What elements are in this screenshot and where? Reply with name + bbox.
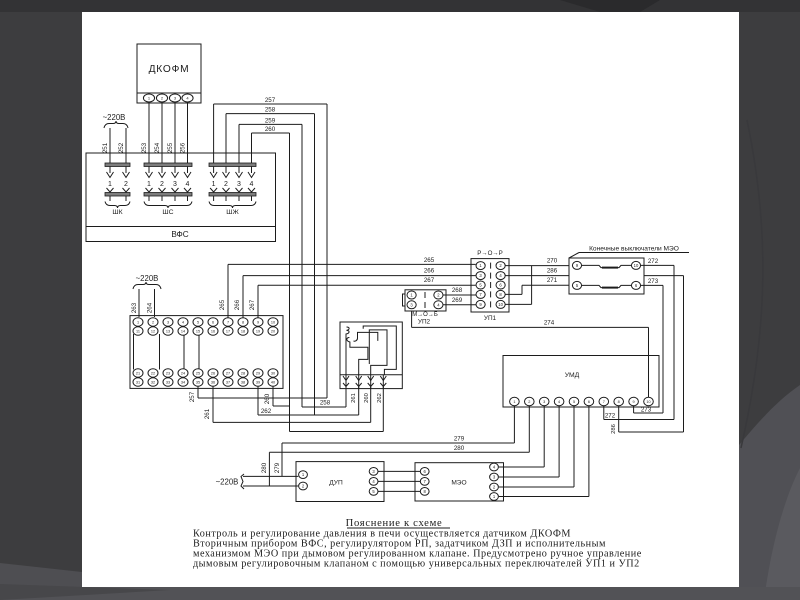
svg-text:15: 15 [196,330,200,334]
wire 260 lower [272,387,274,407]
svg-text:Конечные выключатели МЭО: Конечные выключатели МЭО [589,246,679,253]
wire 286 horizontal [505,275,683,277]
svg-text:262: 262 [261,408,272,415]
wire 280 [528,406,530,453]
svg-text:257: 257 [265,97,276,104]
block РП internal links [133,334,135,370]
svg-text:ДУП: ДУП [329,480,343,487]
svg-text:17: 17 [226,330,230,334]
wire 264 [154,289,156,317]
device valve box [340,322,402,389]
wire 258 vertical [314,114,316,415]
svg-text:279: 279 [274,462,281,473]
device МЭО box [415,463,504,501]
svg-text:10: 10 [498,302,503,307]
wire 253 [148,103,150,163]
wire 251 [109,128,111,163]
wire 220-ДУП2 [243,485,298,487]
wire ДУП4-МЭО7 [378,480,420,482]
svg-text:3: 3 [237,181,241,188]
svg-text:251: 251 [102,142,109,153]
terminal group ШК [105,163,130,167]
valve divider [340,374,402,376]
svg-text:23: 23 [166,372,170,376]
svg-text:32: 32 [151,381,155,385]
wire 272 [641,264,674,266]
svg-text:35: 35 [196,381,200,385]
wire 270 [505,265,572,267]
wire 255 [174,103,176,163]
svg-text:22: 22 [151,372,155,376]
svg-text:259: 259 [265,117,276,124]
svg-text:~220В: ~220В [136,274,159,283]
svg-text:260: 260 [364,393,370,403]
ДКОФМ pin 4 [182,94,193,102]
svg-text:268: 268 [452,287,463,294]
wire 273 [641,284,663,286]
svg-text:28: 28 [241,372,245,376]
svg-text:30: 30 [271,372,275,376]
svg-text:3: 3 [167,321,169,325]
svg-text:34: 34 [181,381,185,385]
wire 267 [257,285,259,318]
background right arc line [741,120,763,448]
svg-text:16: 16 [211,330,215,334]
svg-text:273: 273 [641,407,652,414]
svg-text:11: 11 [136,330,140,334]
svg-text:20: 20 [271,330,275,334]
wire 266 [242,276,244,318]
svg-text:6: 6 [212,321,214,325]
svg-text:2: 2 [224,181,228,188]
svg-text:39: 39 [256,381,260,385]
svg-text:24: 24 [181,372,185,376]
terminal group ШЖ [209,163,256,167]
svg-text:25: 25 [196,372,200,376]
wire 286 vertical [683,276,685,432]
ДКОФМ pin 3 [169,94,180,102]
svg-text:286: 286 [547,268,558,275]
svg-text:ШК: ШК [112,209,122,216]
svg-text:260: 260 [264,393,271,404]
wire 268 [443,294,476,296]
wire 260 vertical [289,133,291,432]
УП2 separator [424,292,426,298]
background bottom-left sweep [0,563,82,600]
svg-text:36: 36 [211,381,215,385]
wire 252 [125,128,127,163]
svg-text:7: 7 [227,321,229,325]
brace ~220В ШК [104,121,128,128]
svg-text:257: 257 [189,391,196,402]
svg-text:262: 262 [377,393,383,403]
svg-text:260: 260 [265,126,276,133]
wire ДУП5-МЭО8 [378,490,420,492]
svg-text:МЭО: МЭО [451,480,466,487]
valve labyrinth [346,326,396,375]
svg-text:3: 3 [543,400,545,404]
svg-text:37: 37 [226,381,230,385]
УМД pins [510,397,520,405]
svg-text:3: 3 [173,181,177,188]
wire 274 [411,311,413,327]
svg-text:4: 4 [182,321,184,325]
svg-text:ВФС: ВФС [171,230,188,239]
wire 279 [513,406,515,443]
svg-text:269: 269 [452,297,463,304]
block РП terminals [133,318,143,326]
svg-text:253: 253 [141,142,148,153]
wire 260 bracket [252,132,290,134]
device block РП box [130,316,283,389]
wire УМД5-МЭО2 [573,406,575,487]
wire 261 lower [212,387,214,423]
svg-text:27: 27 [226,372,230,376]
wire 257 lower [197,387,199,399]
svg-text:~220В: ~220В [103,113,126,122]
svg-text:10: 10 [271,321,275,325]
device ДКОФМ box [137,44,201,93]
svg-text:265: 265 [219,299,226,310]
wire 263 [138,289,140,317]
svg-text:1: 1 [147,181,151,188]
МЭО pins right [490,463,499,471]
svg-text:УМД: УМД [565,372,580,379]
svg-text:ШЖ: ШЖ [226,209,239,216]
svg-text:18: 18 [241,330,245,334]
wire УМД4-МЭО3 [558,406,560,477]
svg-text:261: 261 [204,408,211,419]
device ВФС box [86,153,276,242]
device УМД box [503,356,659,408]
svg-text:264: 264 [147,302,154,313]
svg-text:2: 2 [124,181,128,188]
wire УМД6-МЭО1 [588,406,590,497]
svg-text:266: 266 [424,268,435,275]
svg-text:1: 1 [108,181,112,188]
svg-text:10: 10 [646,400,650,404]
ДКОФМ pin 2 [156,94,167,102]
svg-text:256: 256 [180,142,187,153]
svg-text:УП1: УП1 [484,315,497,322]
svg-text:261: 261 [351,393,357,403]
slide white page [82,12,739,587]
svg-text:дымовым регулировочным клапано: дымовым регулировочным клапаном с помощь… [193,559,640,570]
svg-text:~220В: ~220В [216,478,239,487]
wire 265 [227,264,229,318]
svg-text:8: 8 [618,400,620,404]
wire 256 [187,103,189,163]
svg-text:4: 4 [558,400,560,404]
svg-text:19: 19 [256,330,260,334]
svg-text:267: 267 [249,299,256,310]
svg-text:31: 31 [136,381,140,385]
svg-text:40: 40 [271,381,275,385]
wire 257 bracket [214,103,327,105]
svg-text:6: 6 [588,400,590,404]
svg-text:266: 266 [234,299,241,310]
svg-text:Р→О→Р: Р→О→Р [477,250,502,257]
device ДУП box [296,462,384,502]
svg-text:272: 272 [605,413,616,420]
svg-text:286: 286 [611,424,617,434]
svg-text:279: 279 [454,436,465,443]
device limit-switch box [569,258,644,294]
device УП2 box [405,290,446,311]
svg-text:272: 272 [648,258,659,265]
svg-text:10: 10 [634,263,639,268]
svg-text:4: 4 [250,181,254,188]
wire 258 lower [302,406,346,408]
wire 271 [505,293,522,295]
wire 254 [161,103,163,163]
svg-text:ДКОФМ: ДКОФМ [149,64,190,75]
svg-text:265: 265 [424,257,435,264]
svg-text:М→О→Б: М→О→Б [412,312,438,318]
wire 257 vertical [326,104,328,398]
svg-text:2: 2 [528,400,530,404]
svg-text:263: 263 [131,302,138,313]
background bottom band [0,587,800,600]
svg-text:4: 4 [186,181,190,188]
svg-text:14: 14 [181,330,185,334]
svg-text:Пояснение к схеме: Пояснение к схеме [346,518,443,529]
svg-text:280: 280 [261,462,268,473]
wire 259 vertical [301,124,303,407]
svg-text:1: 1 [513,400,515,404]
УП1 pins [476,262,485,270]
device ДКОФМ terminal strip [137,93,201,103]
svg-text:7: 7 [603,400,605,404]
background top band [0,0,800,12]
wire 269 [443,304,476,306]
svg-text:ШС: ШС [162,209,173,216]
svg-text:267: 267 [424,277,435,284]
svg-text:38: 38 [241,381,245,385]
svg-text:273: 273 [648,278,659,285]
wire 259 bracket [239,123,302,125]
МЭО pins left [420,468,429,476]
chevron 220 bottom [241,474,244,489]
svg-text:33: 33 [166,381,170,385]
wire ДУП3-МЭО6 [378,470,420,472]
svg-text:258: 258 [320,400,331,407]
svg-text:8: 8 [242,321,244,325]
background bottom-right sweep [739,385,800,600]
ВФС divider [86,226,276,228]
limit switch contact 1 [572,261,581,269]
svg-text:252: 252 [118,142,125,153]
svg-text:26: 26 [211,372,215,376]
svg-text:254: 254 [154,142,161,153]
svg-text:УП2: УП2 [418,319,431,326]
ДКОФМ pin 1 [143,94,154,102]
svg-text:9: 9 [633,400,635,404]
device УП1 box [471,259,509,312]
svg-text:21: 21 [136,372,140,376]
svg-text:9: 9 [257,321,259,325]
wire 270 branch [505,303,531,305]
svg-text:258: 258 [265,107,276,114]
svg-text:13: 13 [166,330,170,334]
svg-text:274: 274 [544,319,555,326]
svg-text:2: 2 [160,181,164,188]
УП2 pins [407,291,416,299]
svg-text:255: 255 [167,142,174,153]
svg-text:1: 1 [212,181,216,188]
svg-text:270: 270 [547,258,558,265]
svg-text:280: 280 [454,445,465,452]
svg-text:5: 5 [197,321,199,325]
terminal group ШС [144,163,192,167]
wire УМД3-МЭО4 [543,406,545,467]
svg-text:271: 271 [547,277,558,284]
wire 262 lower [257,387,259,416]
svg-text:12: 12 [151,330,155,334]
limit switch contact 2 [572,281,581,289]
svg-text:29: 29 [256,372,260,376]
valve terminals [345,375,347,389]
ДУП pins right [369,468,378,476]
wire 220-ДУП1 [243,475,298,477]
svg-text:5: 5 [573,400,575,404]
svg-text:2: 2 [152,321,154,325]
wire 258 bracket [226,113,315,115]
brace ~220В block [133,282,161,289]
УП2 bracket [403,294,406,306]
svg-text:1: 1 [137,321,139,325]
ДУП pins left [299,471,308,479]
